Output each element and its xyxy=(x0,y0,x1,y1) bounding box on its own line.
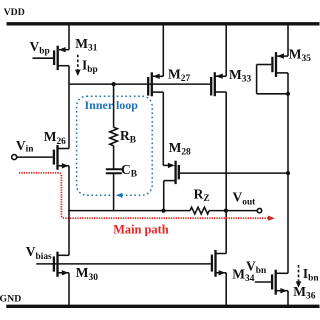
svg-text:Ibn: Ibn xyxy=(303,266,319,283)
label Vbn xyxy=(246,258,267,276)
transistor M33 (PMOS) xyxy=(211,72,226,96)
wire node to RB xyxy=(113,84,115,127)
current arrow Ibp xyxy=(75,55,81,76)
wire M30 source to GND xyxy=(68,273,70,307)
wire RZ to Vout xyxy=(209,210,257,212)
transistor M26 (NMOS) xyxy=(54,145,69,170)
svg-text:Inner loop: Inner loop xyxy=(85,98,139,112)
junction M33/M34 output xyxy=(224,209,228,213)
main path arrowhead xyxy=(268,216,275,221)
label Ibp xyxy=(82,58,98,75)
wire M34 source to GND xyxy=(225,273,227,307)
label M26 xyxy=(44,129,66,147)
label Vin xyxy=(16,138,34,155)
label M31 xyxy=(75,36,97,54)
svg-text:M35: M35 xyxy=(289,47,311,65)
transistor M30 (NMOS) xyxy=(54,252,69,277)
svg-text:RZ: RZ xyxy=(194,187,210,205)
Vbias row xyxy=(36,263,211,265)
label Main path xyxy=(113,222,169,236)
label M30 xyxy=(76,265,98,283)
wire M36 source to GND xyxy=(287,291,289,307)
label RB xyxy=(120,128,136,146)
svg-text:Vbias: Vbias xyxy=(26,244,52,262)
wire M26 source down xyxy=(68,166,70,212)
wire VDD to M31 source xyxy=(68,24,70,50)
label M34 xyxy=(232,267,254,285)
label GND xyxy=(0,294,21,305)
inner loop arrow xyxy=(116,193,123,198)
output node row xyxy=(69,210,190,212)
junction M28 gate bias xyxy=(286,171,290,175)
wire VDD to M27 source xyxy=(162,24,164,77)
svg-text:M31: M31 xyxy=(75,36,97,54)
wire M27 drain to M28 source xyxy=(162,92,164,165)
junction M35 drain-gate xyxy=(286,92,290,96)
junction RB top node xyxy=(112,82,116,86)
transistor M27 (PMOS) xyxy=(148,72,163,96)
label VDD xyxy=(4,7,25,18)
svg-text:Vbp: Vbp xyxy=(30,39,50,57)
label M28 xyxy=(169,140,191,158)
junction M28 drain output row xyxy=(161,209,165,213)
svg-text:CB: CB xyxy=(121,162,137,180)
transistor M34 (NMOS) xyxy=(212,250,226,277)
svg-text:M28: M28 xyxy=(169,140,191,158)
wire M33 drain to M34 drain xyxy=(225,92,227,254)
label M35 xyxy=(289,47,311,65)
label CB xyxy=(121,162,137,180)
wire VDD to M35 source xyxy=(287,24,289,56)
resistor RB xyxy=(110,127,118,146)
node row gate of M27/M33 xyxy=(69,83,210,85)
svg-text:RB: RB xyxy=(120,128,136,146)
terminal Vin xyxy=(12,155,17,160)
label Vout xyxy=(233,190,257,208)
svg-text:GND: GND xyxy=(0,294,21,305)
wire Vin to M26 gate xyxy=(17,156,53,158)
wire CB to output node row xyxy=(113,173,115,211)
main path red dotted xyxy=(19,173,269,218)
wire RB to CB xyxy=(113,146,115,169)
wire VDD to M33 source xyxy=(225,24,227,76)
svg-text:M27: M27 xyxy=(168,66,190,84)
svg-text:M33: M33 xyxy=(229,67,251,85)
VDD rail xyxy=(7,22,320,25)
transistor M36 (NMOS) xyxy=(255,270,288,295)
svg-text:Vin: Vin xyxy=(16,138,34,155)
label Vbias xyxy=(26,244,52,262)
label Vbp xyxy=(30,39,50,57)
label Inner loop xyxy=(85,98,139,112)
svg-text:Ibp: Ibp xyxy=(82,58,98,75)
svg-text:Vout: Vout xyxy=(233,190,257,208)
capacitor CB xyxy=(106,169,122,173)
svg-text:Main path: Main path xyxy=(113,222,169,236)
GND rail xyxy=(6,305,319,308)
transistor M31 (PMOS) xyxy=(33,46,70,70)
svg-text:Vbn: Vbn xyxy=(246,258,267,276)
svg-text:VDD: VDD xyxy=(4,7,25,18)
svg-text:M36: M36 xyxy=(293,284,315,302)
wire output row to M30 drain xyxy=(68,211,70,256)
label Ibn xyxy=(303,266,319,283)
svg-text:M26: M26 xyxy=(44,129,66,147)
inner loop box xyxy=(77,96,153,195)
wire M28 drain down xyxy=(163,181,165,211)
svg-text:M30: M30 xyxy=(76,265,98,283)
wire M31 drain to M26 drain xyxy=(68,66,70,149)
transistor M35 (PMOS diode-connected) xyxy=(257,52,288,94)
resistor RZ xyxy=(190,207,209,214)
wire M28 gate to bias node xyxy=(179,172,288,174)
label M27 xyxy=(168,66,190,84)
terminal Vout xyxy=(257,208,261,212)
label M36 xyxy=(293,284,315,302)
current arrow Ibn xyxy=(296,265,302,288)
wire M35 drain to M36 drain xyxy=(287,73,289,273)
label RZ xyxy=(194,187,210,205)
label M33 xyxy=(229,67,251,85)
transistor M28 (PMOS mirrored) xyxy=(163,161,179,184)
